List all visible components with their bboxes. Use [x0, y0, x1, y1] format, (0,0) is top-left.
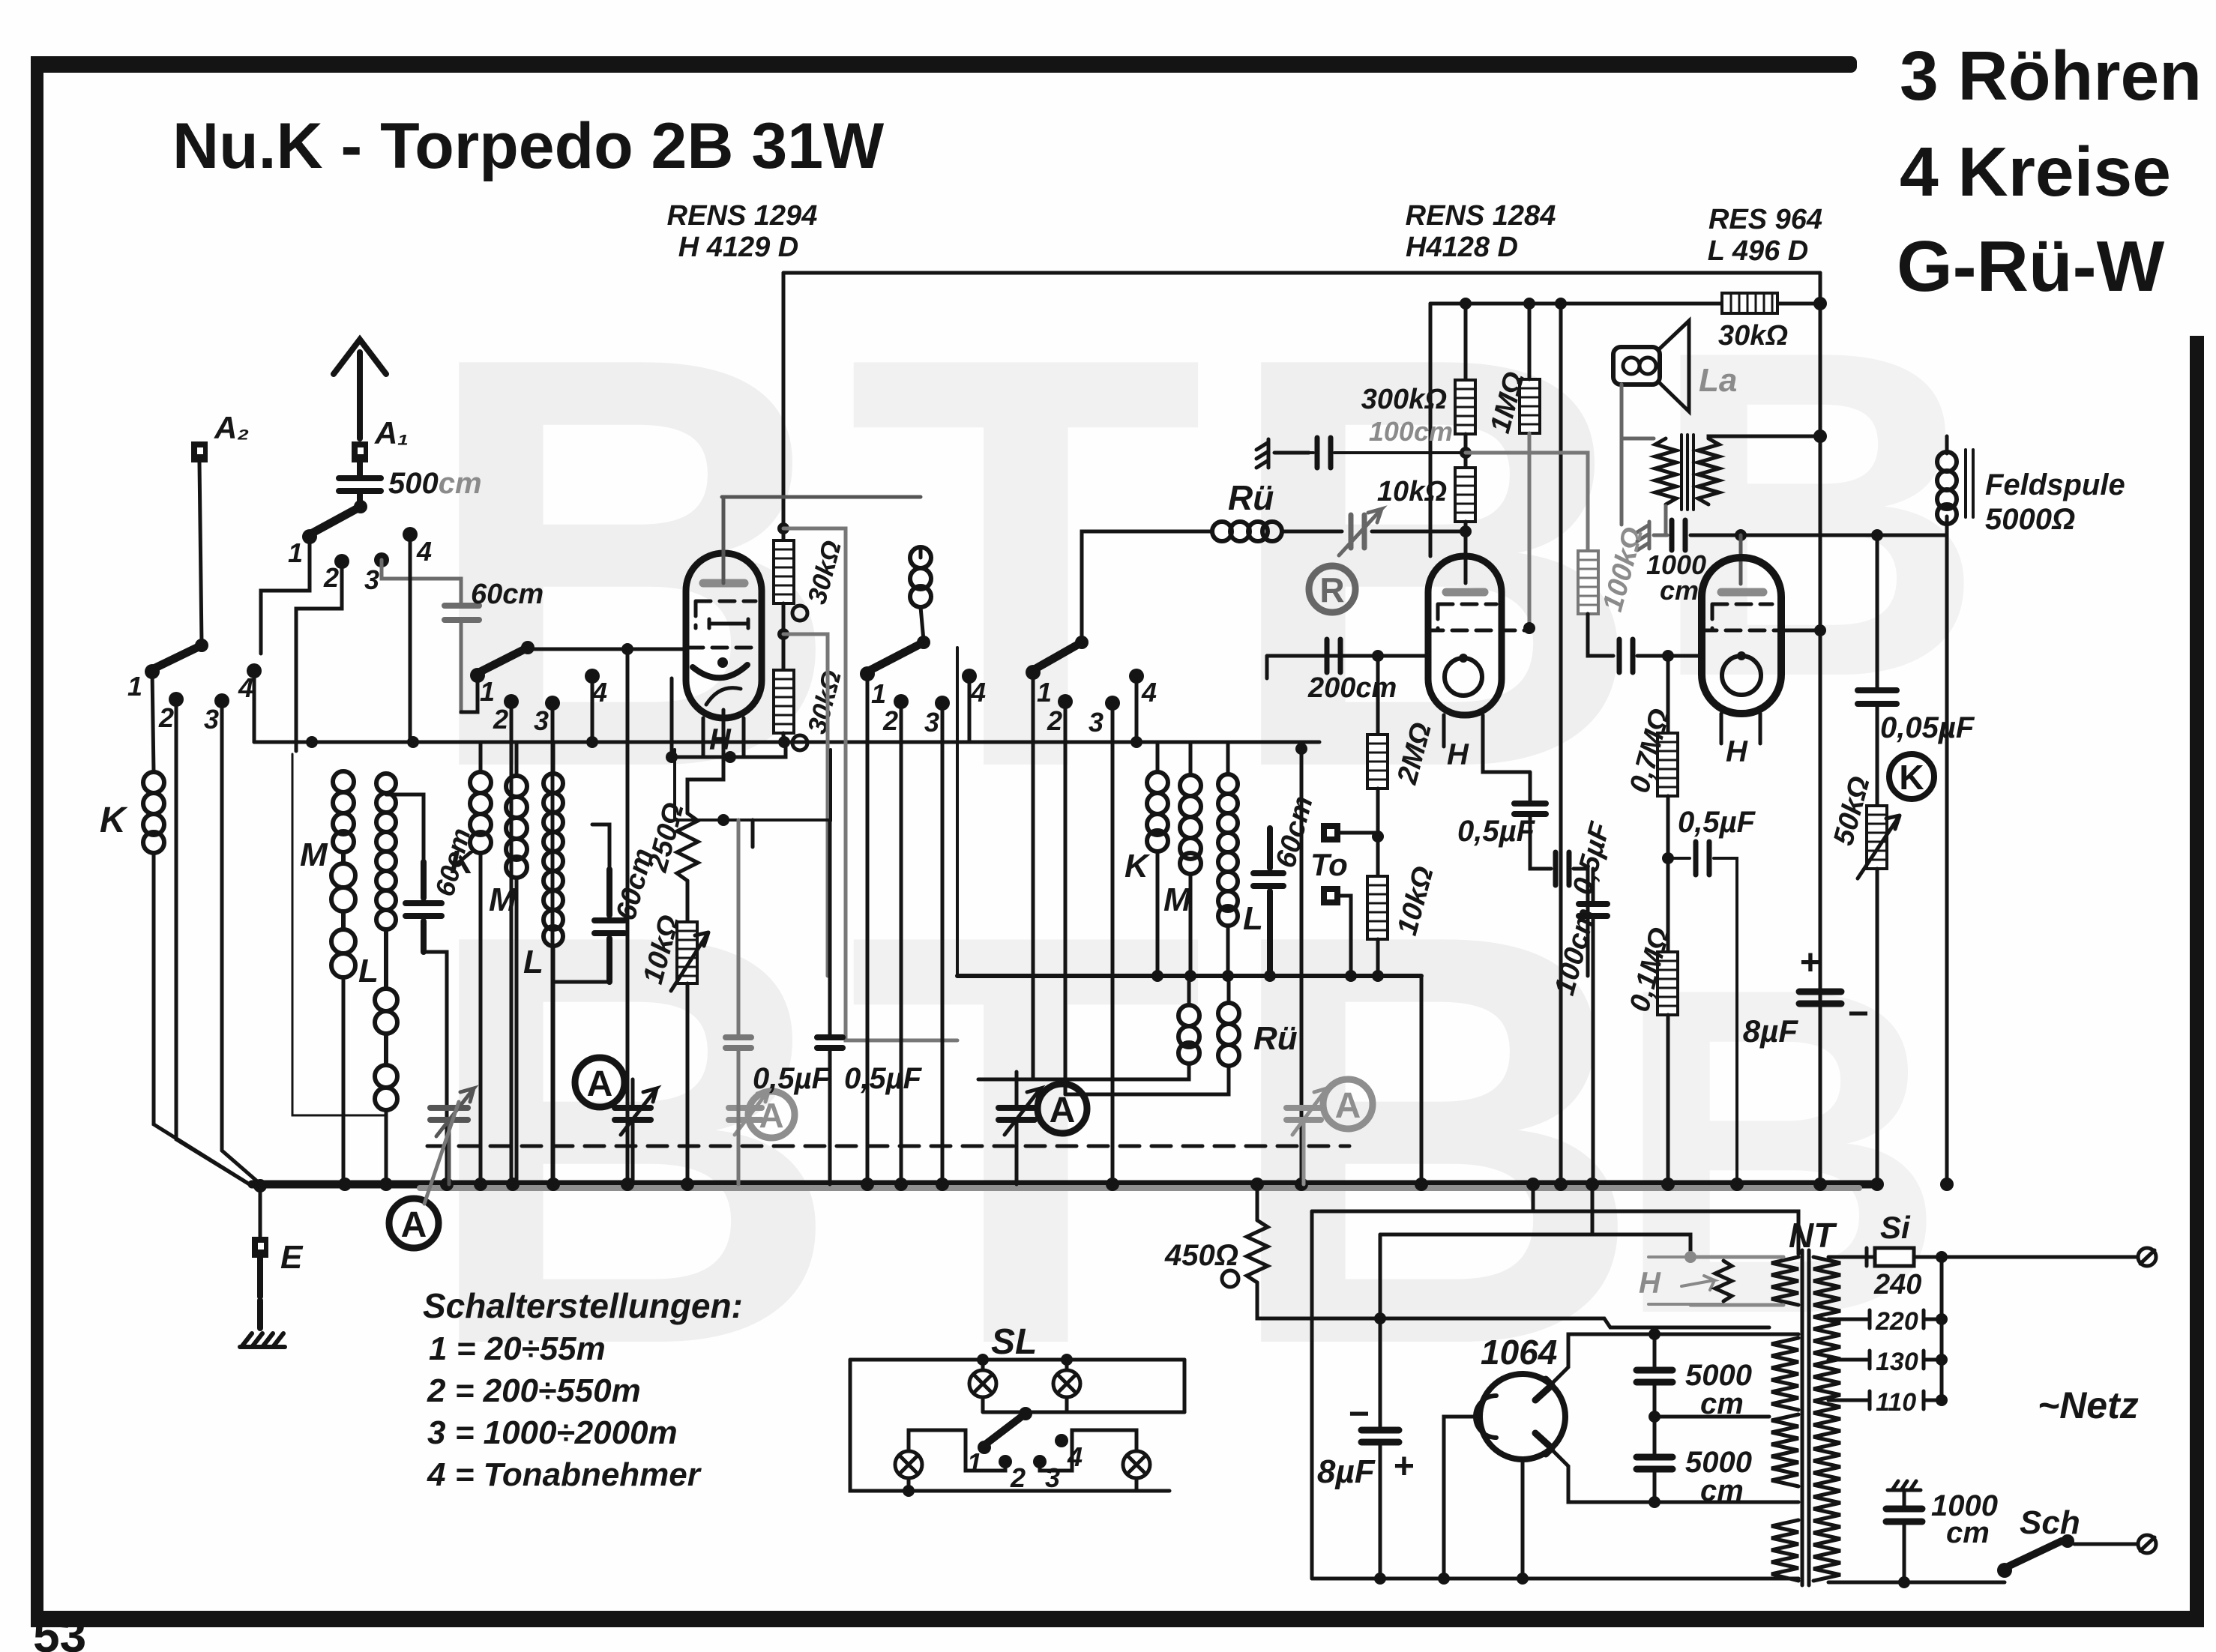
wire cap to tube3	[1637, 654, 1702, 658]
svg-text:240: 240	[1873, 1269, 1921, 1300]
tube1 heater legs	[703, 718, 744, 756]
svg-text:A₁: A₁	[374, 415, 409, 450]
supply box left	[1310, 1211, 1314, 1579]
capacitor 05uF d series	[1556, 852, 1569, 885]
svg-text:cm: cm	[1700, 1474, 1744, 1507]
svg-text:2: 2	[1010, 1462, 1026, 1493]
label Feldspule	[1985, 468, 2125, 536]
svg-text:R: R	[1319, 570, 1344, 609]
tube3 grid dash to HT line	[1781, 629, 1820, 633]
wire L2 top	[552, 742, 555, 774]
wire bankC c1 stub	[461, 675, 478, 712]
resistor 100k	[1578, 551, 1598, 614]
junction HT rail2	[1813, 297, 1827, 310]
coil M tuning1	[331, 771, 355, 977]
bottom return junctions	[1374, 1573, 1529, 1585]
SL second wire	[983, 1397, 1184, 1412]
NT primary heater winding	[1771, 1257, 1798, 1305]
tube2 anode plate	[1446, 588, 1484, 597]
junction heater box	[717, 814, 729, 826]
wire 1M top	[1528, 304, 1532, 379]
tube1 heater return line	[672, 678, 786, 757]
wire junction down to bus	[626, 649, 630, 1184]
wire primary bottom	[1622, 438, 1666, 535]
junction 1M rail2	[1523, 298, 1535, 310]
output transformer secondary	[1698, 438, 1719, 504]
resistor 450ohm zigzag	[1247, 1220, 1268, 1282]
wire speaker to output transformer	[1622, 385, 1654, 438]
junction anode chain	[1460, 525, 1472, 537]
svg-text:La: La	[1699, 362, 1737, 399]
junction mid 30k	[777, 628, 789, 640]
antenna symbol	[334, 340, 386, 438]
wire bankC c4 to pickup rail	[591, 676, 594, 742]
tuning1 box left	[292, 754, 386, 1115]
wires K osc	[1156, 742, 1160, 976]
tube2 cathode	[1445, 654, 1482, 696]
frame bottom bar	[31, 1611, 2204, 1627]
svg-text:+: +	[1393, 1447, 1414, 1486]
junction HT speaker	[1813, 429, 1827, 443]
heater feed wire	[1380, 1235, 1690, 1257]
NT bottom wire	[1828, 1581, 2005, 1585]
capacitor 60cm tuning2	[594, 869, 624, 982]
varcap 5 gray	[1286, 1088, 1327, 1135]
tube3 anode plate	[1721, 588, 1763, 597]
varcap 4	[999, 1088, 1041, 1135]
svg-text:200cm: 200cm	[1307, 672, 1397, 704]
svg-text:A: A	[587, 1064, 613, 1104]
wire bankE pivot to Rue	[1082, 531, 1211, 642]
switch bank B contacts	[145, 663, 262, 708]
svg-text:M: M	[1163, 881, 1192, 918]
frame right bar	[2190, 336, 2204, 1618]
svg-text:3: 3	[204, 704, 219, 735]
heater stub a	[1532, 1184, 1535, 1211]
junction anode tube3	[1735, 529, 1747, 541]
wire bankA c1 to bankB area	[261, 537, 310, 654]
trimmer cap R	[1339, 509, 1382, 555]
svg-text:0,5µF: 0,5µF	[1678, 806, 1756, 839]
resistor 10k det	[1455, 468, 1475, 522]
wire pot to bus	[686, 983, 690, 1184]
junction 30k chain top	[777, 522, 789, 534]
wire bankA c4 down to pickup rail	[409, 534, 412, 742]
svg-text:RES 964: RES 964	[1708, 204, 1822, 235]
pickup rail wire	[254, 741, 1319, 744]
tap 110	[1828, 1388, 1942, 1417]
svg-text:−: −	[1348, 1394, 1369, 1434]
capacitor 005uF	[1858, 690, 1897, 704]
resistor 1M	[1520, 379, 1540, 433]
feedback coil Rue a	[1178, 1005, 1199, 1064]
tube2 grid dashes	[1428, 604, 1529, 630]
tap collector junctions	[1936, 1313, 1948, 1406]
circle A5 gray	[1323, 1079, 1373, 1129]
switch bank E contact numbers	[1037, 677, 1157, 738]
svg-text:4: 4	[970, 677, 986, 708]
svg-text:K: K	[450, 844, 476, 881]
tube3 heater legs	[1721, 714, 1760, 744]
switch bank D contact numbers	[871, 677, 986, 738]
junction long feed rail2	[1555, 298, 1567, 310]
svg-text:cm: cm	[1660, 575, 1699, 606]
junction cap5000 bottom	[1649, 1496, 1661, 1508]
rail2 wire	[1430, 302, 1820, 306]
label 1000cm anode	[1646, 549, 1706, 606]
tube3 grid dashes	[1702, 604, 1781, 630]
long vertical mid feed	[1300, 749, 1304, 1184]
gray branch wires	[783, 528, 957, 1040]
svg-text:0,5µF: 0,5µF	[1457, 815, 1536, 848]
wire 60cm2 ties	[553, 825, 609, 982]
svg-text:1: 1	[871, 678, 886, 709]
cathode resistor chain wire	[687, 710, 723, 813]
ground symbol earth	[240, 1333, 285, 1347]
heater pot wires	[1649, 1251, 1723, 1304]
svg-text:RENS 1284: RENS 1284	[1406, 200, 1556, 232]
switch Sch	[1997, 1534, 2074, 1578]
svg-text:2: 2	[1047, 705, 1062, 736]
NT secondary winding	[1813, 1257, 1840, 1581]
coil K tuning2	[470, 772, 491, 853]
resistor 01M	[1658, 952, 1678, 1015]
circle A4	[1038, 1084, 1087, 1133]
SL contact numbers	[967, 1441, 1083, 1493]
resistor 30k lower	[774, 670, 794, 733]
svg-text:Nu.K - Torpedo 2B 31W: Nu.K - Torpedo 2B 31W	[172, 110, 885, 182]
label 5000cm lower	[1685, 1446, 1752, 1507]
frame top bar	[31, 56, 1857, 73]
terminal A1	[352, 441, 368, 462]
svg-text:3 Röhren: 3 Röhren	[1900, 37, 2202, 115]
lamp 4	[1123, 1451, 1150, 1491]
ground bus	[252, 1181, 1874, 1189]
wire varcap2	[631, 1079, 635, 1184]
coil K osc	[1147, 772, 1168, 851]
svg-text:RENS 1294: RENS 1294	[667, 200, 818, 232]
capacitor 100cm	[1309, 438, 1466, 468]
heater box tube1	[675, 750, 831, 820]
labels 8uF left	[1317, 1394, 1414, 1490]
svg-text:100cm: 100cm	[1369, 416, 1453, 447]
return rail junctions	[1151, 970, 1384, 982]
SL contacts	[978, 1434, 1068, 1468]
leads 05uF b	[828, 820, 832, 1184]
varcap 1	[430, 1088, 474, 1136]
junction cap5000 top	[1649, 1328, 1661, 1340]
svg-text:To: To	[1310, 847, 1348, 882]
svg-text:A: A	[759, 1096, 783, 1135]
svg-text:220: 220	[1875, 1307, 1918, 1336]
wire heater node down	[1379, 1235, 1382, 1318]
junction HT tube3 grid	[1814, 624, 1826, 636]
lead 100cm d	[1592, 869, 1595, 1184]
switch bank C arm	[478, 641, 535, 673]
circle R regeneration	[1309, 566, 1355, 612]
pickup rail junctions	[306, 736, 1142, 748]
svg-text:8µF: 8µF	[1743, 1013, 1799, 1049]
svg-text:K: K	[1124, 848, 1151, 884]
svg-text:M: M	[489, 881, 517, 918]
capacitor 1000cm mains	[1886, 1509, 1922, 1522]
wire field coil down	[1945, 516, 1949, 1184]
tap circle 450	[1222, 1270, 1238, 1287]
switch bank D contacts	[860, 666, 977, 711]
capacitor 05uF a	[726, 1037, 751, 1048]
wire bankA c2 down	[296, 561, 342, 751]
resistor 30k upper	[774, 540, 794, 603]
circle A3 gray	[748, 1091, 795, 1138]
wire bankB c1 to coil K	[152, 672, 154, 772]
wire coil L1 to bus	[385, 1110, 388, 1184]
gang dashed line	[427, 1145, 1349, 1148]
label 8uF right	[1743, 943, 1868, 1049]
junction 5000 mid	[1649, 1411, 1661, 1423]
svg-text:L 496 D: L 496 D	[1708, 235, 1808, 267]
svg-text:110: 110	[1876, 1388, 1916, 1417]
svg-text:1064: 1064	[1481, 1333, 1557, 1372]
lamp 3	[895, 1451, 922, 1491]
fuse Si	[1867, 1248, 1925, 1266]
svg-text:1: 1	[127, 671, 142, 702]
junction 1000cm mains	[1898, 1576, 1910, 1588]
svg-text:4: 4	[1141, 677, 1157, 708]
varcap 3 gray	[729, 1090, 769, 1135]
svg-text:3 = 1000÷2000m: 3 = 1000÷2000m	[427, 1414, 678, 1451]
svg-text:53: 53	[33, 1609, 86, 1652]
wire 10k3 to return rail	[1376, 939, 1380, 976]
output transformer primary	[1655, 438, 1676, 504]
transformer core NT	[1802, 1250, 1809, 1585]
wire return rail to bus	[1420, 976, 1424, 1184]
terminal To lower	[1321, 886, 1351, 976]
capacitor 100cm d	[1579, 904, 1607, 916]
svg-text:B: B	[1649, 255, 1985, 774]
wire K chain	[1876, 535, 1879, 806]
wire coil to bankD pivot	[921, 547, 924, 640]
heater return junctions	[666, 751, 736, 763]
svg-text:300kΩ: 300kΩ	[1361, 384, 1447, 415]
svg-text:−: −	[1847, 994, 1868, 1034]
field coil wire top	[1945, 436, 1949, 453]
switch bank E contacts	[1026, 665, 1144, 711]
SL staircase left	[909, 1430, 1005, 1471]
tap circle 30k lower	[792, 735, 807, 750]
NT primary mid winding	[1771, 1338, 1798, 1410]
wire L2 to bus	[552, 946, 555, 1184]
leads 05uF c	[1483, 747, 1551, 869]
rectifier tube 1064	[1480, 1374, 1565, 1459]
junction tap collector top	[1936, 1251, 1948, 1263]
label 1000cm mains	[1931, 1489, 1998, 1549]
SL switch arm	[984, 1407, 1032, 1445]
wire varcap5	[1302, 1120, 1306, 1184]
switch bank D arm	[867, 636, 930, 672]
svg-text:H: H	[1726, 735, 1748, 768]
svg-text:A: A	[1335, 1086, 1361, 1126]
SL left side	[850, 1360, 1169, 1491]
wire trimmer to anode chain	[1372, 530, 1466, 534]
wire rectifier left	[1444, 1417, 1481, 1579]
wire bankB c2 to bus	[176, 699, 252, 1186]
SL top junctions	[977, 1354, 1073, 1366]
svg-text:1: 1	[288, 537, 303, 568]
wire 250 to pot	[686, 881, 690, 922]
tube2 envelope	[1428, 556, 1502, 715]
terminal To upper	[1321, 823, 1378, 842]
lead 05uF d	[1574, 869, 1588, 976]
svg-text:Si: Si	[1880, 1210, 1911, 1245]
grid rail bankC to tube1	[528, 648, 686, 649]
terminal E	[252, 1237, 268, 1258]
junction grid tube2 right	[1523, 622, 1535, 634]
label 5000cm upper	[1685, 1359, 1752, 1420]
svg-text:0,5µF: 0,5µF	[844, 1062, 923, 1095]
svg-text:1: 1	[1037, 677, 1052, 708]
wire bankC c2 to bus	[510, 702, 514, 1184]
potentiometer 10k	[671, 922, 708, 991]
field coil core	[1966, 450, 1973, 517]
wire bankC c3 to bus	[551, 703, 555, 1184]
text Schalterstellungen	[423, 1286, 743, 1493]
loudspeaker horn	[1660, 321, 1689, 412]
coupling coil Rue	[1212, 522, 1282, 541]
wire K2 top	[479, 742, 483, 772]
output transformer core	[1681, 435, 1693, 510]
NT primary bottom winding	[1771, 1520, 1798, 1581]
wires L osc	[1226, 742, 1230, 976]
wire 01M to bus	[1666, 1015, 1670, 1184]
wire K2 to bus	[479, 853, 483, 1184]
svg-text:H: H	[1447, 738, 1469, 771]
wire bankD c4	[968, 676, 972, 742]
tube1 top cap wire	[722, 497, 921, 583]
switch bank B contact numbers	[127, 671, 253, 735]
wire Rue to trimmer	[1282, 530, 1342, 534]
wire heater winding taps	[1690, 1257, 1783, 1305]
net terminal top	[2138, 1248, 2156, 1266]
bus junction dots	[338, 1178, 1954, 1191]
capacitor 60cm antenna series	[445, 606, 479, 620]
lamp 2	[1053, 1360, 1080, 1397]
wire rectifier anode top	[1549, 1334, 1798, 1387]
svg-text:H4128 D: H4128 D	[1406, 232, 1518, 263]
wire bankA c3 to 60cm cap	[382, 560, 461, 603]
svg-text:+: +	[1799, 943, 1820, 983]
junction To node	[1372, 830, 1384, 842]
svg-text:Schalterstellungen:: Schalterstellungen:	[423, 1286, 743, 1325]
wire varcap4	[1015, 1072, 1019, 1184]
svg-text:3: 3	[534, 705, 549, 736]
main HT vertical	[1819, 273, 1822, 1184]
heater stub b	[1591, 1184, 1595, 1235]
terminal E wire	[259, 1186, 262, 1237]
wire rail2 corner down	[1429, 304, 1433, 556]
supply box top wire	[1312, 1211, 1798, 1254]
switch bank B arm	[152, 639, 208, 669]
wire coil K to bus	[154, 853, 252, 1186]
varcap 2	[615, 1088, 657, 1135]
svg-text:2: 2	[323, 562, 339, 593]
heater hum pot	[1715, 1261, 1732, 1301]
coil K antenna	[143, 772, 164, 853]
long vertical feed	[1559, 304, 1563, 1184]
resistor 2M	[1367, 735, 1388, 789]
wire 8uF chain	[1379, 1318, 1382, 1579]
wire 100k to grid cap	[1588, 614, 1613, 656]
field coil	[1937, 452, 1957, 524]
wire 10k to tube2 plate	[1464, 522, 1468, 583]
arrow A1 to varcap1	[424, 1102, 459, 1204]
switch bank C contacts	[470, 668, 600, 711]
ground bus gray overlay	[420, 1185, 1859, 1191]
rectifier cathode arc	[1475, 1396, 1496, 1438]
capacitor 05uF c	[1514, 804, 1546, 814]
rectifier anodes	[1535, 1379, 1552, 1454]
svg-text:~Netz: ~Netz	[2038, 1384, 2139, 1426]
tube1 anode plate	[703, 579, 744, 588]
frame left bar	[31, 56, 43, 1624]
wire Si to terminal	[1925, 1255, 2138, 1259]
NT primary low winding	[1771, 1414, 1798, 1486]
wire bankB c3 to bus	[222, 701, 262, 1186]
svg-text:L: L	[523, 944, 544, 980]
tube3 cathode	[1722, 651, 1761, 695]
loudspeaker box	[1613, 347, 1660, 385]
junction stub a	[1526, 1178, 1540, 1191]
capacitor 60cm tuning1	[406, 862, 442, 952]
svg-text:L: L	[358, 953, 379, 989]
wire coil M1 to bus	[342, 977, 346, 1184]
wire 450 down	[1257, 1282, 1769, 1327]
capacitor 60cm osc	[1253, 828, 1283, 976]
svg-text:2: 2	[882, 705, 898, 736]
svg-text:130: 130	[1876, 1348, 1918, 1376]
fuse Si wire	[1828, 1255, 1875, 1259]
resistor 07M	[1658, 733, 1678, 796]
wire heater box down	[751, 820, 755, 847]
coil M tuning2	[506, 776, 527, 878]
junction 100cm node	[1460, 447, 1472, 459]
wire M2 top	[515, 742, 519, 776]
circle K	[1889, 754, 1934, 799]
wire to 2M	[1376, 656, 1380, 735]
svg-text:M: M	[300, 836, 328, 873]
tap circle 30k upper	[792, 606, 807, 621]
wire rectifier anode bottom	[1549, 1447, 1798, 1502]
wire varcap1	[448, 1120, 451, 1184]
svg-text:4: 4	[416, 536, 432, 567]
wire 50k to bus	[1876, 869, 1879, 1184]
svg-text:Feldspule: Feldspule	[1985, 468, 2125, 501]
svg-text:H: H	[709, 723, 732, 756]
svg-text:60cm: 60cm	[471, 579, 544, 610]
tap 220	[1828, 1307, 1942, 1336]
wire anode line tube3	[1690, 534, 1947, 537]
wire 5000 mid tap	[1655, 1415, 1769, 1419]
wire bankE c4	[1135, 676, 1139, 742]
junction mid feed	[1295, 743, 1307, 755]
resistor 250ohm zigzag	[677, 813, 698, 881]
circle A ant1	[389, 1199, 439, 1248]
tap 130	[1828, 1348, 1942, 1376]
capacitor 1000cm anode	[1672, 520, 1685, 550]
resistor 30k output top	[1722, 293, 1777, 313]
resistor 450ohm wire	[1256, 1184, 1259, 1220]
return rail	[957, 974, 1421, 978]
wire 1M down gray	[1528, 433, 1532, 626]
